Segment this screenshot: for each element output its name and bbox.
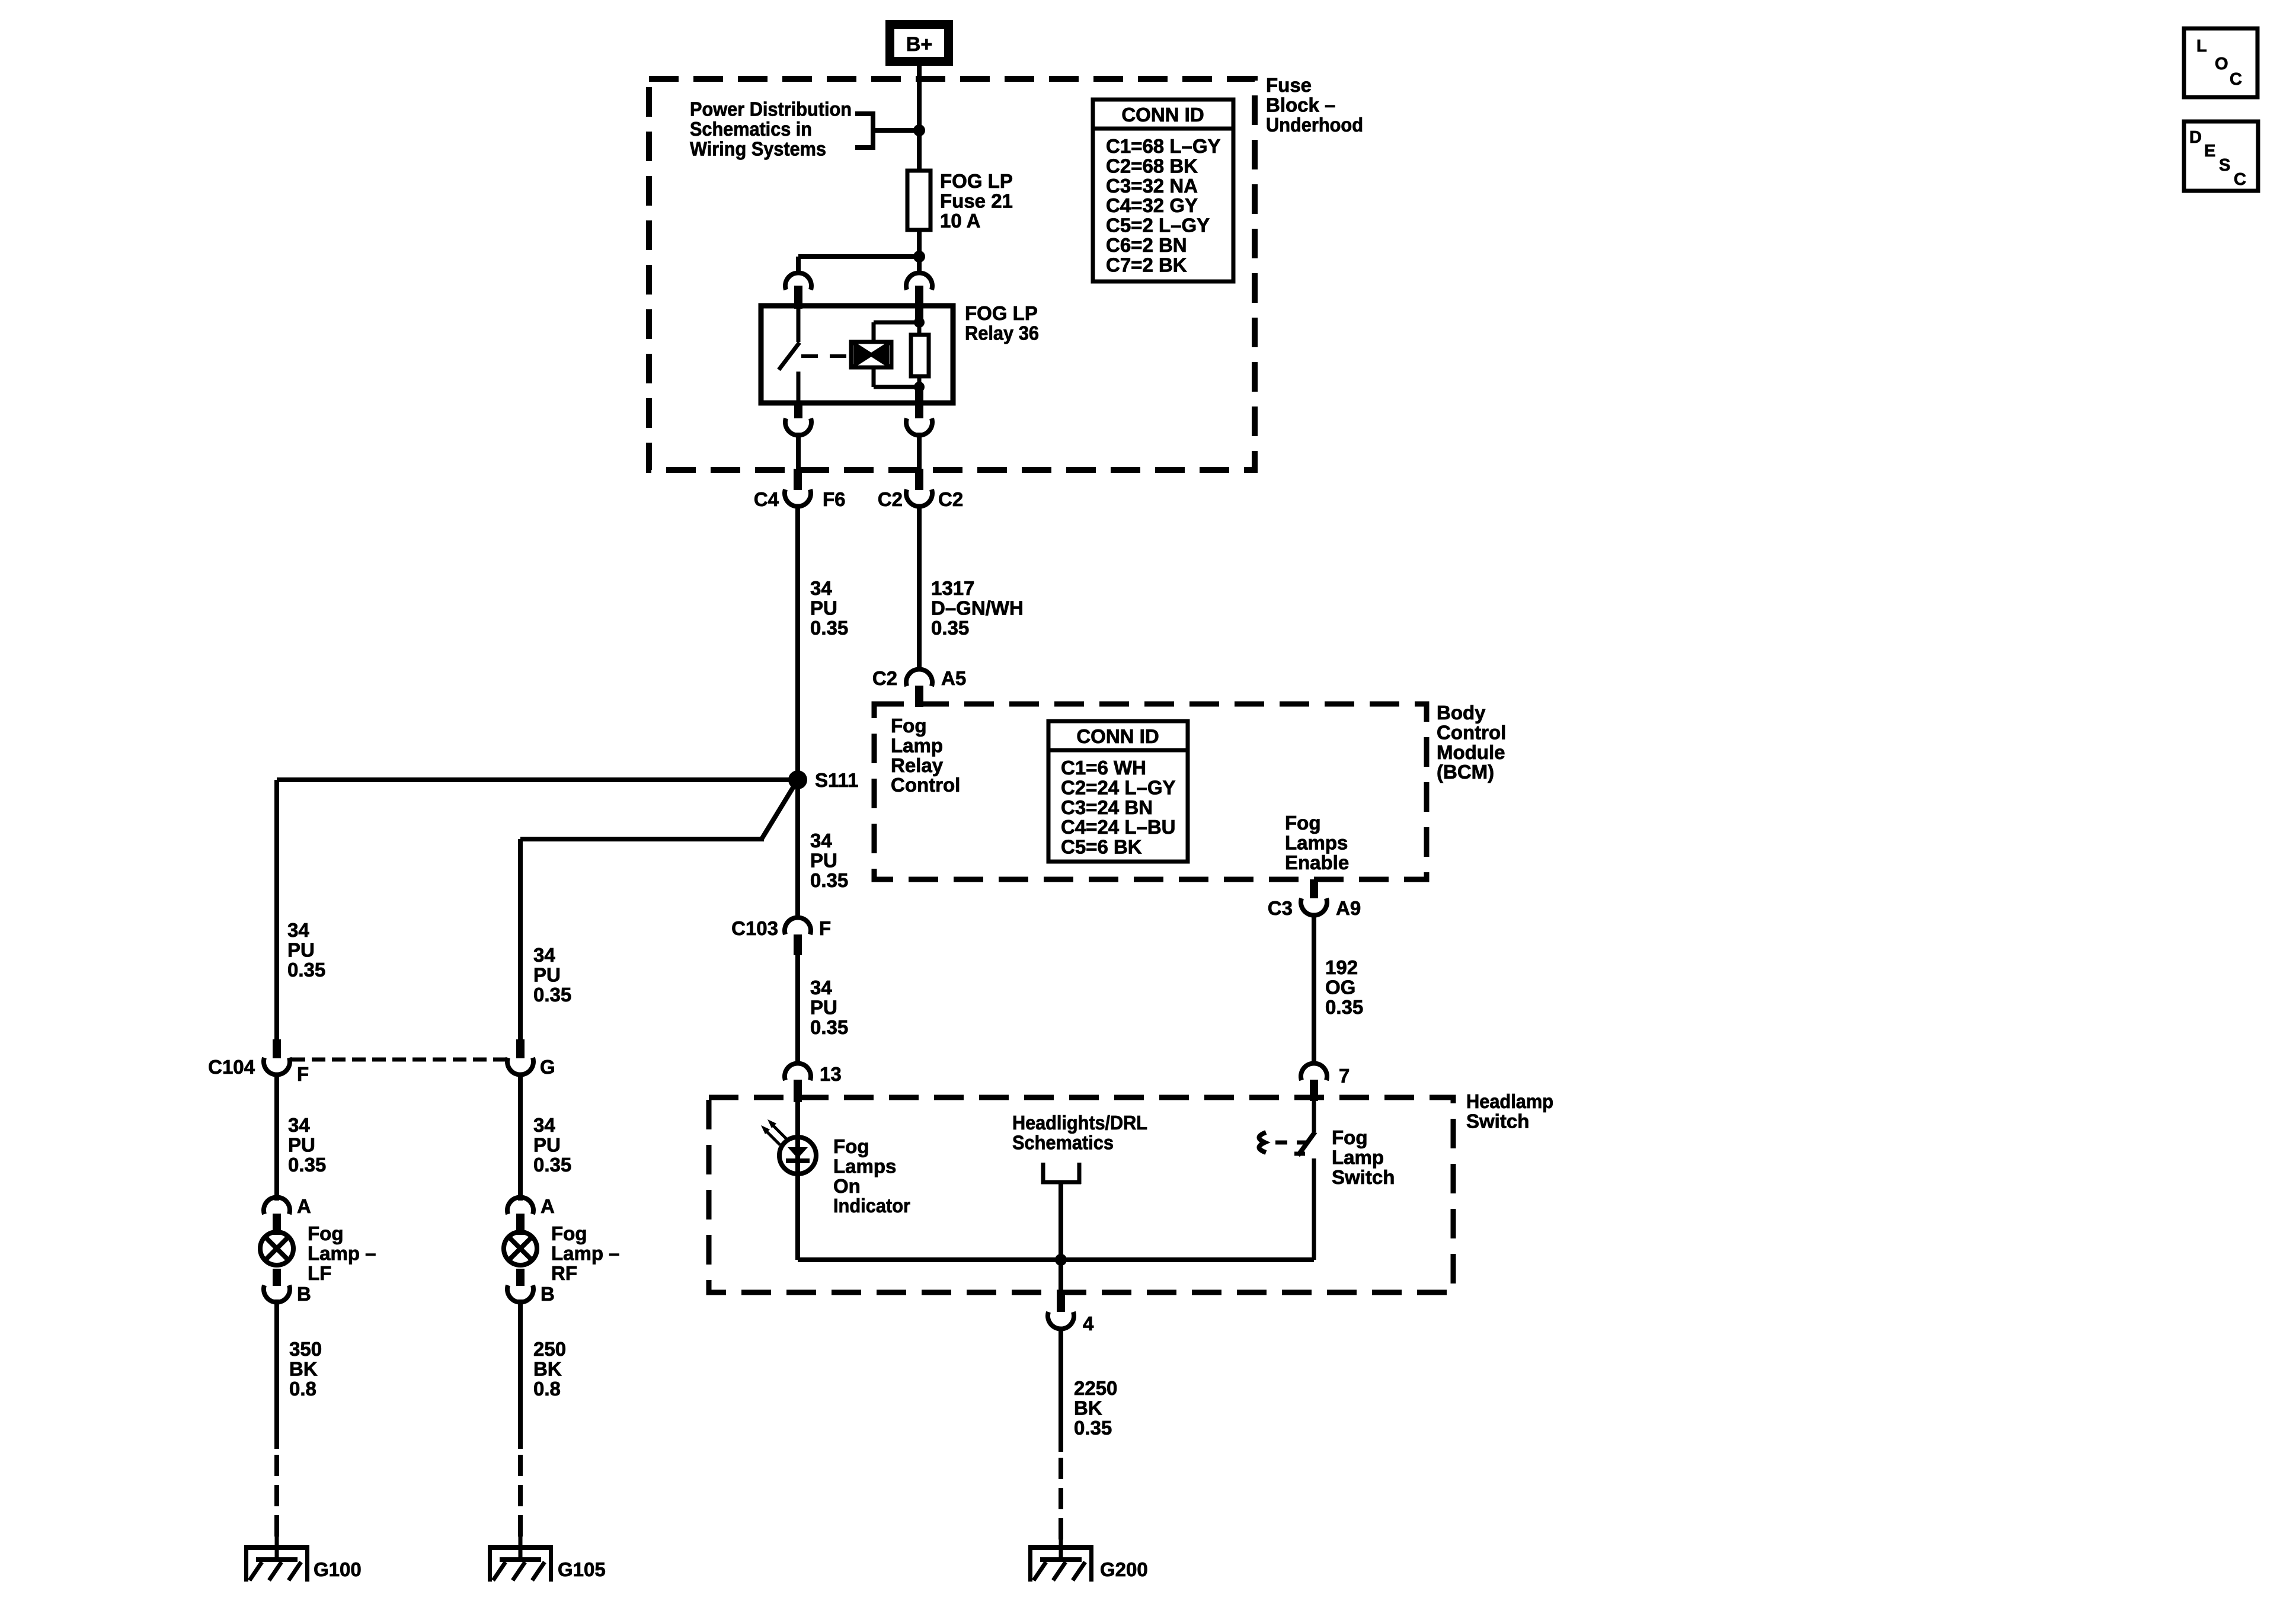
label 34 PU 0.35 (right branch) (533, 944, 571, 1006)
svg-text:1317: 1317 (931, 577, 974, 599)
wire pin13 to LED indicator (795, 1102, 800, 1260)
svg-text:G105: G105 (558, 1558, 606, 1580)
svg-text:Fog: Fog (308, 1222, 343, 1244)
label 1317 D-GN/WH 0.35 (931, 577, 1024, 639)
svg-text:C4=24 L–BU: C4=24 L–BU (1061, 816, 1176, 838)
svg-text:F6: F6 (823, 488, 846, 510)
svg-text:G200: G200 (1100, 1558, 1148, 1580)
connector C4 pin F6 (754, 469, 846, 510)
svg-text:34: 34 (287, 919, 309, 941)
DESC reference box (2184, 121, 2258, 191)
svg-text:Module: Module (1437, 741, 1505, 763)
relay resistor (911, 335, 929, 376)
svg-text:0.35: 0.35 (288, 1154, 326, 1176)
wire 250 BK 0.8 (RF to G105) (518, 1299, 523, 1541)
svg-text:A9: A9 (1336, 897, 1361, 919)
note Power Distribution Schematics in Wiring Systems (690, 98, 852, 160)
label 192 OG 0.35 (1325, 956, 1363, 1018)
svg-text:PU: PU (287, 939, 315, 961)
junction dot relay coil bottom (914, 382, 925, 392)
svg-text:C2=24 L–GY: C2=24 L–GY (1061, 776, 1176, 798)
fog lamp RF (504, 1232, 537, 1265)
svg-text:S: S (2219, 156, 2230, 175)
svg-text:Control: Control (1437, 721, 1506, 743)
wire bracket to bus (1059, 1184, 1063, 1260)
svg-text:0.35: 0.35 (287, 959, 325, 981)
svg-text:PU: PU (533, 964, 561, 985)
BCM box (Body Control Module) (874, 704, 1427, 879)
relay K36 (FOG LP Relay 36) box (761, 306, 953, 403)
ground G100 (244, 1535, 362, 1582)
svg-text:Fuse: Fuse (1266, 74, 1312, 96)
label Headlamp Switch (1466, 1090, 1553, 1132)
label Fog Lamp Switch (1332, 1126, 1395, 1188)
svg-text:C103: C103 (731, 917, 778, 939)
svg-text:Lamp –: Lamp – (308, 1242, 376, 1264)
svg-text:C2: C2 (872, 667, 897, 689)
svg-text:On: On (833, 1175, 861, 1197)
label Headlights/DRL Schematics (1012, 1112, 1147, 1153)
connector arc relay 36 switch-pin bottom (785, 401, 811, 436)
svg-text:Switch: Switch (1466, 1110, 1529, 1132)
svg-text:C6=2 BN: C6=2 BN (1106, 234, 1187, 256)
connector arc relay 36 coil-pin top (906, 273, 932, 321)
svg-text:BK: BK (533, 1358, 562, 1379)
junction dot power distribution tap (913, 124, 925, 136)
wire S111 to left branch (277, 777, 798, 782)
connector arc relay 36 coil-pin bottom (906, 387, 932, 436)
svg-text:C3: C3 (1268, 897, 1293, 919)
svg-text:Schematics in: Schematics in (690, 118, 812, 140)
svg-text:C3=24 BN: C3=24 BN (1061, 796, 1153, 818)
svg-text:C5=2 L–GY: C5=2 L–GY (1106, 215, 1210, 236)
connector pin 13 (785, 1063, 842, 1102)
fuse F21 (FOG LP Fuse 21 10 A) (907, 171, 930, 230)
svg-text:Control: Control (891, 774, 960, 796)
wire 350 BK 0.8 (LF to G100) (274, 1299, 279, 1541)
wire 34 PU 0.35 (C4-F6 to S111) (795, 504, 800, 920)
svg-text:PU: PU (810, 996, 837, 1018)
label Fog Lamps On Indicator (833, 1135, 910, 1217)
connector pin 4 (1048, 1292, 1094, 1334)
switch actuator brace (1259, 1132, 1266, 1153)
svg-text:PU: PU (810, 597, 837, 619)
headlamp switch box (709, 1097, 1453, 1292)
svg-text:Fog: Fog (833, 1135, 869, 1157)
wire branch to relay switch pin (798, 257, 919, 275)
svg-text:Lamp: Lamp (1332, 1146, 1384, 1168)
label Fog Lamp - RF (551, 1222, 620, 1284)
svg-text:FOG LP: FOG LP (965, 302, 1038, 324)
svg-text:0.8: 0.8 (533, 1378, 561, 1400)
svg-text:LF: LF (308, 1262, 331, 1284)
bracket headlights/DRL feed (1041, 1163, 1081, 1184)
svg-text:A: A (297, 1195, 311, 1217)
svg-text:250: 250 (533, 1338, 566, 1360)
wire C104-F to fog lamp LF (274, 1073, 279, 1201)
label 34 PU 0.35 (below C103) (810, 977, 848, 1038)
relay linkage dash line (801, 354, 851, 358)
svg-text:Lamps: Lamps (1285, 831, 1348, 853)
svg-text:F: F (819, 917, 831, 939)
svg-text:PU: PU (810, 849, 837, 871)
svg-text:0.35: 0.35 (810, 869, 848, 891)
svg-text:0.35: 0.35 (533, 1154, 571, 1176)
connector pin B (LF) (264, 1269, 311, 1305)
svg-text:B: B (297, 1283, 311, 1305)
ground G200 (1028, 1535, 1148, 1582)
svg-text:34: 34 (810, 830, 832, 852)
relay coil loop wires (874, 322, 919, 387)
svg-text:C4=32 GY: C4=32 GY (1106, 194, 1198, 216)
svg-text:Power Distribution: Power Distribution (690, 98, 852, 120)
svg-text:S111: S111 (815, 769, 858, 791)
svg-text:Underhood: Underhood (1266, 114, 1363, 136)
power symbol B+ (885, 20, 953, 66)
svg-text:Headlamp: Headlamp (1466, 1090, 1553, 1112)
svg-text:0.8: 0.8 (289, 1378, 316, 1400)
svg-text:BK: BK (1074, 1397, 1102, 1419)
svg-text:34: 34 (288, 1114, 310, 1136)
wire fuse to relay branch (917, 230, 922, 275)
dashed tie line C104 F-G (292, 1058, 506, 1062)
svg-text:(BCM): (BCM) (1437, 761, 1494, 783)
svg-text:7: 7 (1339, 1065, 1350, 1087)
svg-text:Lamp –: Lamp – (551, 1242, 620, 1264)
svg-text:0.35: 0.35 (931, 617, 969, 639)
label 34 PU 0.35 (to RF) (533, 1114, 571, 1176)
label FOG LP Fuse 21 10 A (940, 170, 1013, 232)
label 2250 BK 0.35 (1074, 1377, 1117, 1439)
svg-text:C7=2 BK: C7=2 BK (1106, 254, 1187, 276)
fog lamp LF (260, 1232, 293, 1265)
svg-text:Schematics: Schematics (1012, 1131, 1114, 1153)
svg-text:0.35: 0.35 (1074, 1417, 1112, 1439)
connector C104 pin G (507, 1039, 555, 1078)
svg-text:D: D (2189, 128, 2202, 147)
connector C104 pin F (208, 1039, 309, 1085)
LOC reference box (2184, 28, 2257, 97)
svg-text:Relay: Relay (891, 754, 944, 776)
label 34 PU 0.35 (below S111) (810, 830, 848, 891)
bracket power distribution tap (855, 111, 919, 150)
junction dot headlamp bus (1055, 1254, 1067, 1266)
connector pin B (RF) (507, 1269, 555, 1305)
svg-text:F: F (297, 1063, 309, 1085)
connector pin A (LF) (264, 1195, 311, 1235)
svg-text:C3=32 NA: C3=32 NA (1106, 175, 1198, 197)
wire B+ to fuse F21 (917, 66, 922, 171)
svg-text:0.35: 0.35 (533, 984, 571, 1006)
svg-text:Relay 36: Relay 36 (965, 322, 1039, 344)
svg-text:Headlights/DRL: Headlights/DRL (1012, 1112, 1147, 1134)
svg-text:PU: PU (288, 1134, 315, 1156)
wire 1317 D-GN/WH 0.35 (C2 to BCM A5) (917, 504, 922, 671)
svg-text:C: C (2230, 70, 2242, 89)
svg-text:C4: C4 (754, 488, 779, 510)
svg-text:Wiring Systems: Wiring Systems (690, 137, 826, 159)
LED fog lamps on indicator (779, 1137, 816, 1174)
label 34 PU 0.35 (810, 577, 848, 639)
svg-text:Fog: Fog (1285, 812, 1320, 834)
svg-text:Switch: Switch (1332, 1166, 1395, 1188)
svg-text:G: G (540, 1056, 555, 1078)
svg-text:C1=68 L–GY: C1=68 L–GY (1106, 135, 1221, 157)
svg-text:D–GN/WH: D–GN/WH (931, 597, 1024, 619)
table CONN ID (fuse block underhood) (1093, 100, 1233, 281)
connector arc relay 36 switch-pin top (785, 273, 811, 309)
svg-text:RF: RF (551, 1262, 577, 1284)
bus wire inside headlamp switch (798, 1257, 1314, 1262)
svg-text:350: 350 (289, 1338, 322, 1360)
svg-text:FOG LP: FOG LP (940, 170, 1013, 192)
svg-text:C1=6 WH: C1=6 WH (1061, 757, 1146, 779)
svg-text:C2=68 BK: C2=68 BK (1106, 155, 1198, 177)
svg-text:Fog: Fog (1332, 1126, 1367, 1148)
label Body Control Module (BCM) (1437, 702, 1506, 783)
wire bus to pin 4 (1059, 1260, 1063, 1294)
svg-text:Fog: Fog (891, 715, 926, 737)
wires resistor to dots (917, 322, 922, 387)
label Fuse Block - Underhood (1266, 74, 1363, 136)
svg-text:C2: C2 (938, 488, 963, 510)
svg-text:Fuse 21: Fuse 21 (940, 190, 1013, 212)
svg-text:0.35: 0.35 (810, 1016, 848, 1038)
wire relay to fuse block edge right (917, 433, 922, 469)
junction dot relay feed branch (913, 251, 925, 263)
wire 192 OG 0.35 (A9 to headlamp switch) (1312, 913, 1316, 1065)
svg-text:A: A (541, 1195, 555, 1217)
svg-text:13: 13 (820, 1063, 842, 1085)
wire 34 PU 0.35 (C103 to headlamp switch) (795, 955, 800, 1065)
ground G105 (488, 1535, 606, 1582)
svg-text:L: L (2196, 37, 2207, 56)
connector C2 pin C2 (878, 469, 963, 510)
svg-text:G100: G100 (314, 1558, 362, 1580)
wire relay to fuse block edge left (796, 433, 801, 469)
svg-text:B: B (541, 1283, 555, 1305)
label FOG LP Relay 36 (965, 302, 1039, 344)
svg-text:2250: 2250 (1074, 1377, 1117, 1399)
relay coil (851, 342, 891, 367)
wire 34 PU 0.35 left branch (274, 780, 279, 1039)
wire S111 diagonal to right branch (520, 780, 798, 839)
label 250 BK 0.8 (533, 1338, 566, 1400)
label 34 PU 0.35 (to LF) (288, 1114, 326, 1176)
svg-text:PU: PU (533, 1134, 561, 1156)
svg-text:Indicator: Indicator (833, 1195, 910, 1217)
svg-text:B+: B+ (906, 33, 932, 56)
connector C3 pin A9 (1268, 879, 1361, 919)
svg-text:A5: A5 (941, 667, 966, 689)
svg-text:CONN ID: CONN ID (1121, 104, 1204, 126)
svg-text:C104: C104 (208, 1056, 255, 1078)
svg-text:34: 34 (533, 1114, 555, 1136)
switch fog lamp switch (1294, 1101, 1315, 1260)
svg-text:Lamp: Lamp (891, 734, 943, 756)
connector pin A (RF) (507, 1195, 555, 1235)
fuse block box (Fuse Block - Underhood) (649, 79, 1255, 470)
relay switch contact (779, 308, 800, 403)
svg-text:34: 34 (533, 944, 555, 966)
svg-text:C5=6 BK: C5=6 BK (1061, 836, 1142, 858)
svg-text:OG: OG (1325, 976, 1355, 998)
svg-text:BK: BK (289, 1358, 318, 1379)
connector pin 7 (1301, 1063, 1350, 1101)
switch linkage dashes (1275, 1141, 1307, 1145)
svg-text:O: O (2215, 55, 2228, 73)
label Fog Lamp - LF (308, 1222, 376, 1284)
connector C103 pin F (731, 917, 831, 955)
svg-text:4: 4 (1083, 1313, 1094, 1334)
svg-text:10 A: 10 A (940, 210, 980, 232)
svg-text:C2: C2 (878, 488, 903, 510)
svg-text:0.35: 0.35 (1325, 996, 1363, 1018)
svg-text:34: 34 (810, 977, 832, 998)
splice S111 (788, 770, 807, 789)
svg-text:C: C (2234, 170, 2246, 189)
label Fog Lamp Relay Control (891, 715, 960, 796)
svg-text:0.35: 0.35 (810, 617, 848, 639)
svg-text:Body: Body (1437, 702, 1486, 724)
svg-text:Lamps: Lamps (833, 1155, 896, 1177)
svg-text:CONN ID: CONN ID (1076, 725, 1159, 747)
label 34 PU 0.35 (left branch) (287, 919, 325, 981)
junction dot relay coil top (914, 317, 925, 328)
svg-text:192: 192 (1325, 956, 1358, 978)
svg-text:Fog: Fog (551, 1222, 587, 1244)
wire G to fog lamp RF (518, 1073, 523, 1201)
connector C2 pin A5 (872, 667, 966, 707)
svg-text:E: E (2204, 142, 2215, 161)
label Fog Lamps Enable (1285, 812, 1349, 873)
table CONN ID (BCM) (1048, 721, 1188, 862)
wire 2250 BK 0.35 (pin 4 to G200) (1059, 1327, 1063, 1541)
LED arrows (761, 1119, 786, 1145)
svg-text:Enable: Enable (1285, 852, 1349, 873)
wire 34 PU 0.35 right branch (518, 839, 523, 1039)
label 350 BK 0.8 (289, 1338, 322, 1400)
svg-text:Block –: Block – (1266, 94, 1335, 116)
svg-text:34: 34 (810, 577, 832, 599)
